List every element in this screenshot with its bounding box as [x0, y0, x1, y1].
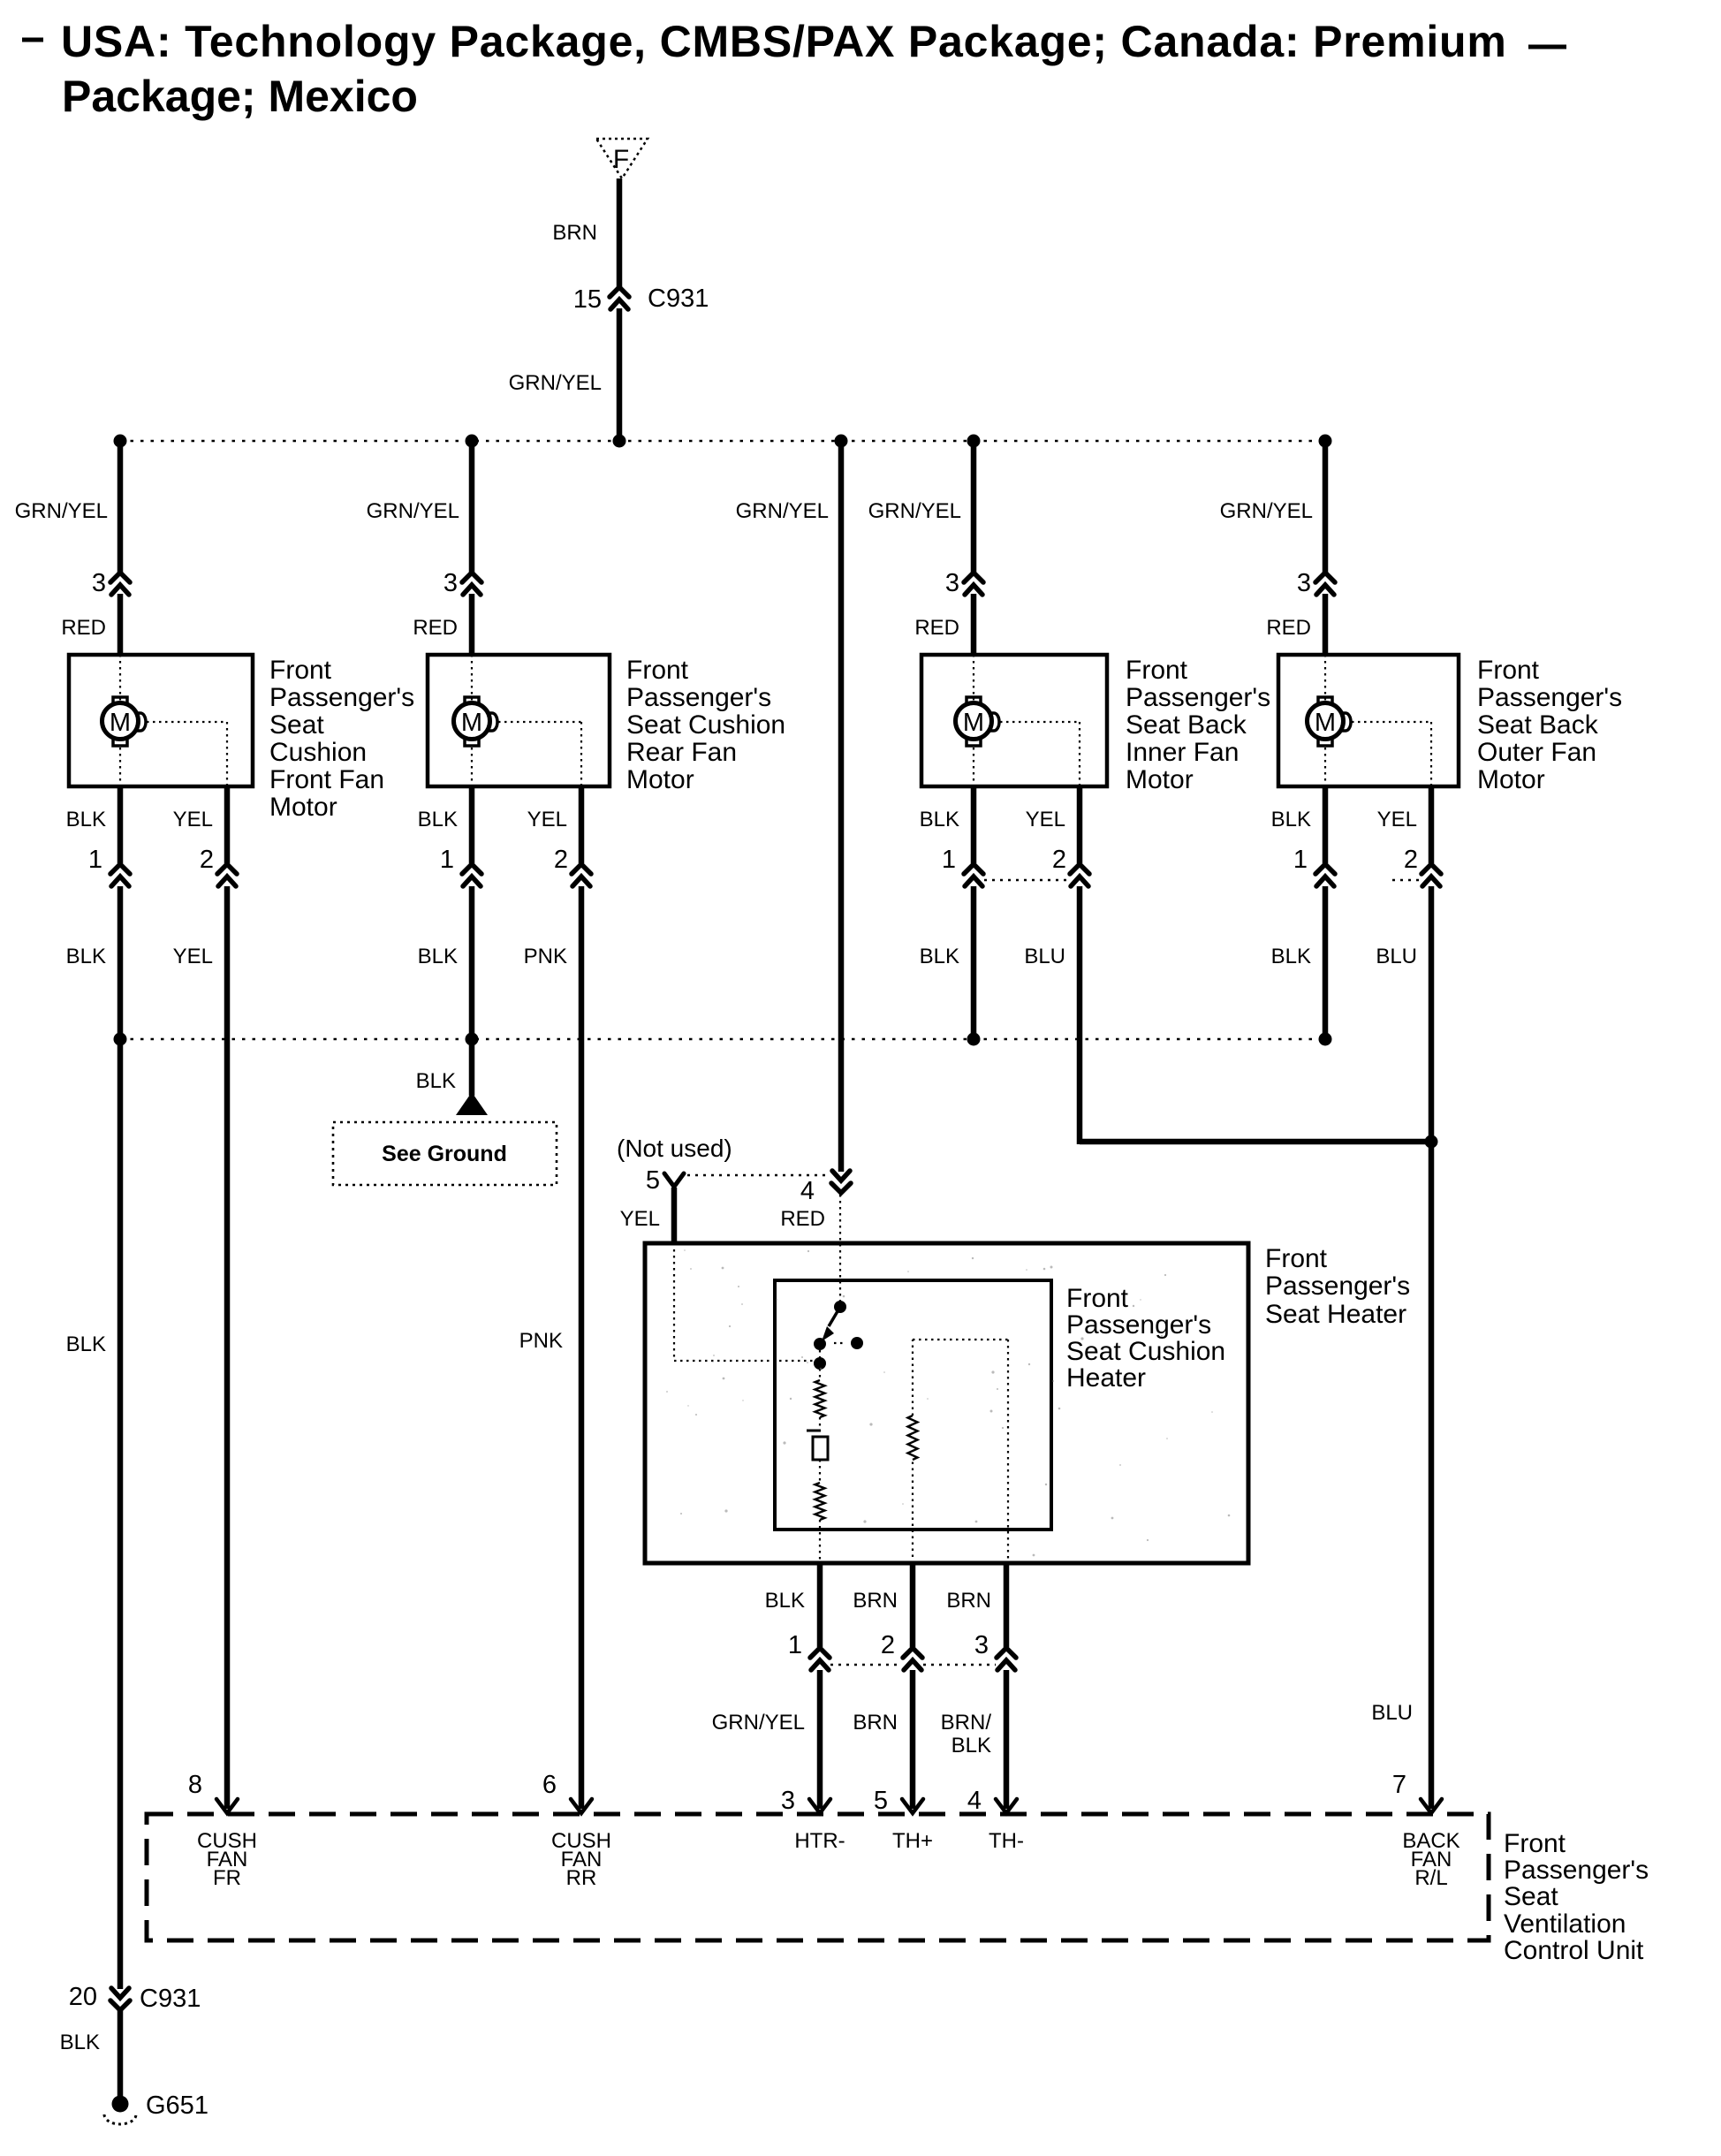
svg-text:PNK: PNK: [524, 945, 567, 968]
wire BLK below motor (pin1): [118, 786, 124, 863]
junction bus1 x=136: [114, 435, 127, 448]
svg-text:20: 20: [69, 1983, 97, 2011]
svg-text:Front: Front: [1504, 1829, 1566, 1858]
wire GRN/YEL bus to pin3 connector (Front Passenger's Seat Back Inner Fan Motor): [971, 441, 977, 573]
svg-text:Control Unit: Control Unit: [1504, 1936, 1644, 1965]
svg-text:Seat Back: Seat Back: [1477, 710, 1599, 740]
connector pin 2: [1070, 864, 1089, 886]
motor box: Front Passenger's Seat Cushion Rear Fan Motor: [428, 655, 610, 786]
svg-text:TH+: TH+: [892, 1829, 933, 1853]
svg-text:YEL: YEL: [173, 808, 213, 831]
svg-text:BLU: BLU: [1376, 945, 1417, 968]
wire BRN connector to control unit: [910, 1670, 916, 1809]
motor box: Front Passenger's Seat Back Outer Fan Motor: [1278, 655, 1459, 786]
svg-text:3: 3: [444, 569, 458, 597]
wire BLK bus2 down to connector 20: [118, 1039, 124, 1989]
svg-text:BLK: BLK: [1271, 945, 1311, 968]
connector pin 1: [810, 1648, 830, 1670]
wire BLK below motor (pin1): [469, 786, 475, 863]
svg-text:BLK: BLK: [765, 1589, 805, 1613]
svg-text:Front: Front: [1066, 1284, 1129, 1313]
thermal fuse: [807, 1431, 828, 1460]
wire BLK pin1 box3 to bus2: [971, 886, 977, 1039]
svg-text:YEL: YEL: [173, 945, 213, 968]
svg-text:Motor: Motor: [626, 765, 694, 794]
svg-text:Front: Front: [626, 656, 689, 685]
svg-text:Seat Cushion: Seat Cushion: [626, 710, 785, 740]
switch open contact node: [851, 1337, 863, 1349]
svg-text:BLK: BLK: [951, 1734, 991, 1757]
svg-text:BLK: BLK: [1271, 808, 1311, 831]
wire RED connector to motor box: [118, 594, 124, 655]
svg-text:Motor: Motor: [1126, 765, 1194, 794]
connector pin 4: [831, 1171, 851, 1193]
junction bus2 x=136: [114, 1033, 127, 1046]
motor box: Front Passenger's Seat Cushion Front Fan Motor: [69, 655, 253, 786]
ground arrow: [456, 1092, 488, 1115]
connector pin 2: [1422, 864, 1441, 886]
wire fuse to connector 15 (BRN): [617, 178, 623, 287]
svg-text:RED: RED: [780, 1207, 825, 1231]
wire BLK below motor (pin1): [971, 786, 977, 863]
connector 15 C931: [610, 287, 629, 309]
svg-text:6: 6: [542, 1771, 557, 1799]
svg-text:M: M: [1315, 709, 1336, 737]
junction bus2 x=1102: [967, 1033, 981, 1046]
internal dotted wiring (Front Passenger's Seat Cushion Rear Fan Motor): [472, 655, 581, 786]
title dash right: [1528, 45, 1566, 49]
svg-text:4: 4: [800, 1177, 815, 1205]
node heater element top: [814, 1357, 826, 1370]
junction bus2 x=1500: [1319, 1033, 1332, 1046]
wire PNK box2 pin2 down to control unit pin 6: [579, 886, 585, 1809]
svg-text:YEL: YEL: [527, 808, 567, 831]
connector pin 1: [110, 864, 130, 886]
wire connector 15 to bus (GRN/YEL): [617, 308, 623, 437]
dotted connector link pins 1-2: [984, 879, 1069, 881]
svg-text:Package; Mexico: Package; Mexico: [62, 72, 418, 121]
control unit pin 6 arrow: [571, 1799, 592, 1813]
svg-text:1: 1: [440, 846, 454, 874]
connector pin 3: [462, 573, 481, 595]
wire BLU horizontal join: [1080, 1139, 1431, 1145]
switch blade: [829, 1307, 840, 1326]
connector pin 3: [997, 1648, 1016, 1670]
svg-text:Passenger's: Passenger's: [269, 683, 414, 712]
svg-text:BRN: BRN: [552, 221, 597, 245]
svg-text:1: 1: [1293, 846, 1308, 874]
junction bus2 x=534: [466, 1033, 479, 1046]
svg-text:F: F: [613, 145, 629, 174]
motor M symbol (Front Passenger's Seat Cushion Front Fan Motor): [102, 697, 147, 746]
wire BRN heater to connector 2: [910, 1563, 916, 1647]
connector pin 2: [572, 864, 591, 886]
svg-text:2: 2: [1052, 846, 1066, 874]
svg-text:Seat: Seat: [269, 710, 324, 740]
junction bus1 x=534: [466, 435, 479, 448]
svg-text:RED: RED: [413, 616, 458, 640]
motor M symbol (Front Passenger's Seat Back Outer Fan Motor): [1308, 697, 1352, 746]
wire BLK below motor (pin1): [1323, 786, 1329, 863]
svg-text:M: M: [963, 709, 984, 737]
connector pin 1: [462, 864, 481, 886]
svg-text:BLK: BLK: [920, 945, 959, 968]
svg-text:BLK: BLK: [66, 808, 106, 831]
svg-text:HTR-: HTR-: [794, 1829, 845, 1853]
svg-text:5: 5: [874, 1787, 888, 1815]
svg-text:BRN: BRN: [946, 1589, 991, 1613]
svg-text:3: 3: [92, 569, 106, 597]
svg-text:R/L: R/L: [1414, 1866, 1447, 1890]
svg-text:GRN/YEL: GRN/YEL: [868, 499, 961, 523]
svg-text:RED: RED: [1266, 616, 1311, 640]
svg-text:2: 2: [1404, 846, 1418, 874]
bus wire 2 BLK (dashed): [120, 1038, 1325, 1041]
svg-text:(Not used): (Not used): [617, 1135, 732, 1162]
Front Passenger's Seat Ventilation Control Unit box (dashed): [147, 1814, 1489, 1940]
wire GRN/YEL bus to pin3 connector (Front Passenger's Seat Cushion Rear Fan Motor): [469, 441, 475, 573]
See Ground dashed box: [333, 1122, 557, 1185]
svg-text:3: 3: [781, 1787, 795, 1815]
wire BRN/ connector to control unit: [1004, 1670, 1010, 1809]
svg-text:Outer Fan: Outer Fan: [1477, 738, 1596, 767]
internal dotted wiring (Front Passenger's Seat Back Inner Fan Motor): [974, 655, 1080, 786]
svg-text:Ventilation: Ventilation: [1504, 1909, 1626, 1939]
svg-text:C931: C931: [648, 285, 709, 313]
svg-text:BLK: BLK: [66, 945, 106, 968]
svg-text:GRN/YEL: GRN/YEL: [367, 499, 459, 523]
svg-text:Motor: Motor: [1477, 765, 1545, 794]
wire GRN/YEL bus to pin3 connector (Front Passenger's Seat Cushion Front Fan Motor): [118, 441, 124, 573]
connector pin 1: [964, 864, 983, 886]
heater internal dotted wiring: [674, 1195, 1008, 1563]
svg-text:1: 1: [788, 1631, 802, 1659]
svg-text:Cushion: Cushion: [269, 738, 367, 767]
control unit pin 4 arrow: [996, 1799, 1017, 1813]
wire BLK pin1 box2 to bus2: [469, 886, 475, 1039]
svg-text:YEL: YEL: [620, 1207, 660, 1231]
motor M symbol (Front Passenger's Seat Back Inner Fan Motor): [956, 697, 1000, 746]
svg-text:Passenger's: Passenger's: [1477, 683, 1622, 712]
switch common node: [834, 1301, 846, 1313]
svg-text:2: 2: [554, 846, 568, 874]
wire BLU box3 pin2 down: [1077, 886, 1083, 1144]
svg-text:BRN/: BRN/: [941, 1711, 992, 1735]
svg-text:GRN/YEL: GRN/YEL: [712, 1711, 805, 1735]
wire BLK pin1 box4 to bus2: [1323, 886, 1329, 1039]
scan speckle (decorative): [666, 1249, 1230, 1556]
ground G651: [112, 2096, 129, 2113]
svg-text:RED: RED: [914, 616, 959, 640]
svg-text:FR: FR: [213, 1866, 241, 1890]
svg-text:BLU: BLU: [1024, 945, 1065, 968]
wire YEL below motor (pin2): [1077, 786, 1083, 863]
svg-text:YEL: YEL: [1377, 808, 1417, 831]
wire GRN/YEL bus to pin3 connector (Front Passenger's Seat Back Outer Fan Motor): [1323, 441, 1329, 573]
svg-text:GRN/YEL: GRN/YEL: [1220, 499, 1313, 523]
svg-text:BRN: BRN: [853, 1589, 898, 1613]
svg-text:Inner Fan: Inner Fan: [1126, 738, 1239, 767]
svg-text:BLK: BLK: [66, 1332, 106, 1356]
connector pin 2: [217, 864, 237, 886]
junction bus1 x=701: [613, 435, 626, 448]
svg-text:7: 7: [1392, 1771, 1406, 1799]
wire YEL below motor (pin2): [579, 786, 585, 863]
svg-text:PNK: PNK: [519, 1329, 563, 1353]
svg-text:M: M: [461, 709, 482, 737]
wire BRN heater to connector 3: [1004, 1563, 1010, 1647]
svg-text:2: 2: [881, 1631, 895, 1659]
switch contact node: [814, 1338, 826, 1350]
heater element resistor upper: [815, 1380, 825, 1417]
svg-text:Passenger's: Passenger's: [1504, 1856, 1649, 1885]
wire GRN/YEL connector to control unit: [817, 1670, 823, 1809]
wire YEL stub into heater box: [671, 1188, 678, 1243]
svg-text:Seat Heater: Seat Heater: [1265, 1300, 1406, 1329]
svg-text:4: 4: [967, 1787, 982, 1815]
svg-text:Passenger's: Passenger's: [1265, 1272, 1410, 1301]
connector 20 C931: [110, 1988, 130, 2010]
svg-text:Passenger's: Passenger's: [1126, 683, 1270, 712]
svg-text:BLK: BLK: [416, 1069, 456, 1093]
wire YEL box1 pin2 down to control unit pin 8: [224, 886, 231, 1809]
svg-text:BLK: BLK: [920, 808, 959, 831]
motor box: Front Passenger's Seat Back Inner Fan Motor: [921, 655, 1107, 786]
svg-text:Passenger's: Passenger's: [626, 683, 771, 712]
motor M symbol (Front Passenger's Seat Cushion Rear Fan Motor): [454, 697, 498, 746]
svg-text:Front Fan: Front Fan: [269, 765, 384, 794]
wire BLK connector 20 to ground G651: [118, 2010, 124, 2096]
svg-text:BLK: BLK: [418, 945, 458, 968]
svg-text:BLK: BLK: [418, 808, 458, 831]
control unit pin 8 arrow: [216, 1799, 238, 1813]
internal dotted wiring (Front Passenger's Seat Back Outer Fan Motor): [1325, 655, 1431, 786]
svg-text:Seat: Seat: [1504, 1882, 1558, 1911]
connector pin 3: [110, 573, 130, 595]
dotted connector link pin 2: [1392, 879, 1419, 881]
heater element resistor lower: [815, 1483, 825, 1520]
svg-text:RR: RR: [566, 1866, 597, 1890]
svg-text:Seat Back: Seat Back: [1126, 710, 1247, 740]
Front Passenger's Seat Heater box: [645, 1243, 1248, 1563]
connector pin 3: [1315, 573, 1335, 595]
junction bus1 x=952: [835, 435, 848, 448]
svg-text:Rear Fan: Rear Fan: [626, 738, 737, 767]
internal dotted wiring (Front Passenger's Seat Cushion Front Fan Motor): [120, 655, 227, 786]
dotted connector link pins 1-2-3: [830, 1664, 902, 1666]
connector pin 2: [903, 1648, 922, 1670]
svg-text:GRN/YEL: GRN/YEL: [736, 499, 829, 523]
connector pin 5 (not used): [664, 1173, 684, 1187]
svg-text:Front: Front: [1477, 656, 1540, 685]
control unit pin 7 arrow: [1421, 1799, 1442, 1813]
svg-text:YEL: YEL: [1026, 808, 1065, 831]
svg-text:2: 2: [200, 846, 214, 874]
wire RED connector to motor box: [971, 594, 977, 655]
svg-text:15: 15: [573, 285, 602, 314]
svg-text:Front: Front: [1265, 1244, 1328, 1273]
svg-text:See Ground: See Ground: [382, 1142, 507, 1166]
Front Passenger's Seat Cushion Heater box: [775, 1280, 1051, 1530]
wire BLK pin1 box1 to bus2: [118, 886, 124, 1039]
control unit pin 3 arrow: [809, 1799, 830, 1813]
svg-text:M: M: [110, 709, 131, 737]
junction bus1 x=1102: [967, 435, 981, 448]
svg-text:Passenger's: Passenger's: [1066, 1310, 1211, 1340]
dotted connector link pins 5-4: [687, 1174, 830, 1176]
svg-text:C931: C931: [140, 1985, 201, 2013]
svg-text:G651: G651: [146, 2091, 208, 2120]
svg-text:RED: RED: [61, 616, 106, 640]
svg-text:Heater: Heater: [1066, 1363, 1146, 1393]
svg-text:GRN/YEL: GRN/YEL: [15, 499, 108, 523]
wire BLK heater to connector 1: [817, 1563, 823, 1647]
svg-text:TH-: TH-: [989, 1829, 1024, 1853]
wire BLU box4 pin2 down to control unit pin 7: [1429, 886, 1435, 1809]
svg-text:BRN: BRN: [853, 1711, 898, 1735]
junction BLU wires: [1425, 1135, 1438, 1149]
svg-text:BLU: BLU: [1371, 1701, 1413, 1725]
svg-text:1: 1: [88, 846, 102, 874]
bus wire GRN/YEL (dashed): [120, 440, 1325, 443]
svg-text:Front: Front: [269, 656, 332, 685]
fuse F: [596, 139, 648, 178]
wire BLK to ground arrow: [469, 1039, 475, 1096]
svg-text:3: 3: [1297, 569, 1311, 597]
connector pin 1: [1315, 864, 1335, 886]
wire YEL below motor (pin2): [224, 786, 231, 863]
wire YEL below motor (pin2): [1429, 786, 1435, 863]
wire GRN/YEL-RED bus1 down to heater connector 4: [838, 441, 845, 1172]
thermistor TH: [908, 1416, 918, 1460]
svg-text:3: 3: [945, 569, 959, 597]
svg-text:Motor: Motor: [269, 793, 337, 822]
svg-text:Seat Cushion: Seat Cushion: [1066, 1337, 1225, 1366]
svg-text:BLK: BLK: [60, 2031, 100, 2054]
title dash left: [22, 38, 43, 42]
svg-text:3: 3: [974, 1631, 989, 1659]
svg-text:USA: Technology Package, CMBS/: USA: Technology Package, CMBS/PAX Packag…: [61, 17, 1507, 66]
svg-text:1: 1: [942, 846, 956, 874]
control unit pin 5 arrow: [902, 1799, 923, 1813]
svg-text:8: 8: [188, 1771, 202, 1799]
connector pin 3: [964, 573, 983, 595]
junction bus1 x=1500: [1319, 435, 1332, 448]
wire RED connector to motor box: [469, 594, 475, 655]
svg-text:5: 5: [646, 1166, 660, 1195]
svg-text:GRN/YEL: GRN/YEL: [509, 371, 602, 395]
svg-text:Front: Front: [1126, 656, 1188, 685]
wire RED connector to motor box: [1323, 594, 1329, 655]
